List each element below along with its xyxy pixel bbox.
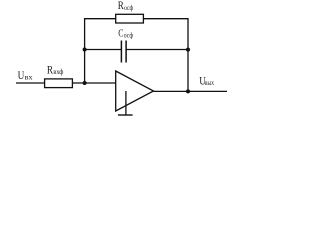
svg-text:вх: вх (25, 75, 34, 82)
svg-text:вых: вых (205, 80, 215, 87)
svg-text:C: C (118, 28, 123, 40)
svg-text:осф: осф (124, 5, 133, 12)
svg-text:U: U (18, 68, 25, 82)
svg-text:вхф: вхф (53, 69, 63, 76)
svg-text:осф: осф (124, 33, 134, 40)
